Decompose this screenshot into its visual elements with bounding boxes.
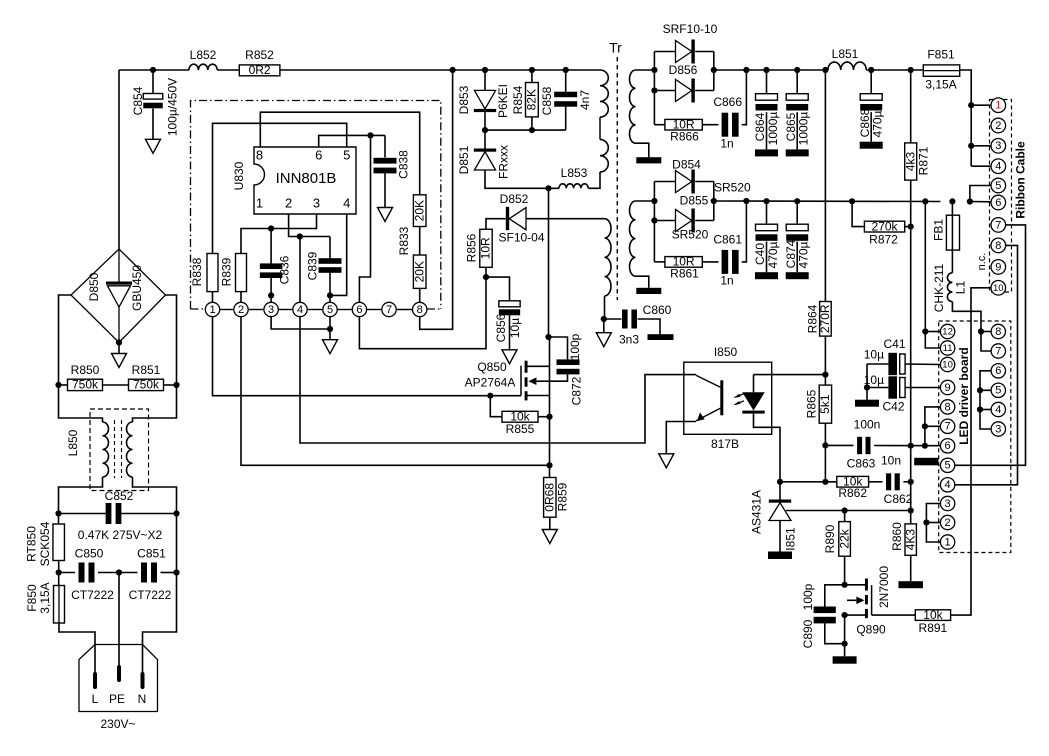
ground bar [636, 157, 661, 163]
svg-text:1n: 1n [720, 137, 733, 151]
wire left rail to bridge [118, 70, 120, 249]
wire ribbon pin6 [970, 201, 991, 203]
svg-text:AS431A: AS431A [750, 490, 764, 534]
wire pin6 to C838 [319, 135, 385, 147]
LED board pins left [940, 324, 954, 338]
svg-text:I851: I851 [784, 527, 798, 551]
svg-text:4: 4 [945, 479, 951, 491]
diode D852 SF10-04 [506, 207, 509, 230]
svg-text:20K: 20K [412, 200, 426, 221]
svg-text:3n3: 3n3 [619, 333, 639, 347]
wire pin5 to R838 [213, 123, 347, 253]
capacitor C41 10u [867, 363, 888, 365]
capacitor C890 100p [825, 585, 845, 607]
wire pin circle 1 to gate [213, 317, 491, 396]
svg-text:1000µ: 1000µ [766, 112, 780, 146]
node PE junction [116, 569, 122, 575]
svg-text:4: 4 [297, 304, 303, 316]
svg-text:R866: R866 [670, 130, 699, 144]
resistor R861 10R [654, 261, 665, 263]
node [327, 326, 333, 332]
node [173, 382, 179, 388]
wire left mains rail to plug [59, 623, 95, 673]
node [908, 224, 914, 230]
svg-text:C864: C864 [753, 112, 767, 141]
svg-text:C836: C836 [278, 255, 292, 284]
ground bar [768, 552, 792, 560]
svg-text:U830: U830 [232, 161, 246, 190]
svg-text:C851: C851 [137, 547, 166, 561]
resistor R864 270R [824, 70, 826, 302]
op-amp I850 817B optocoupler [684, 362, 772, 434]
ground bar [860, 142, 883, 149]
node [908, 479, 914, 485]
ground bar [755, 149, 778, 156]
transformer primary winding [600, 70, 608, 117]
ground bar [833, 656, 857, 663]
svg-text:0R68: 0R68 [542, 483, 556, 512]
svg-text:750k: 750k [133, 378, 160, 392]
node [545, 334, 551, 340]
svg-text:D854: D854 [672, 158, 701, 172]
svg-text:C860: C860 [643, 303, 672, 317]
resistor R854 82K [531, 70, 533, 83]
svg-text:C850: C850 [75, 547, 104, 561]
node [529, 67, 535, 73]
capacitor C850 [59, 572, 75, 574]
resistor R890 22k [844, 511, 846, 522]
resistor R862 10k [780, 481, 837, 483]
svg-text:CT7222: CT7222 [71, 588, 114, 602]
node [173, 569, 179, 575]
wire pins 3+5 to ground [271, 317, 330, 329]
node [651, 198, 657, 204]
svg-text:5: 5 [343, 147, 350, 162]
node [297, 233, 303, 239]
svg-text:5: 5 [945, 460, 951, 472]
wire emitter to ground [666, 422, 696, 454]
svg-text:817B: 817B [711, 437, 739, 451]
svg-text:6: 6 [945, 440, 951, 452]
svg-text:Q850: Q850 [477, 360, 507, 374]
svg-text:C852: C852 [105, 489, 134, 503]
svg-text:CT7222: CT7222 [129, 588, 172, 602]
svg-text:9: 9 [945, 382, 951, 394]
svg-text:LED driver board: LED driver board [957, 347, 971, 444]
svg-text:SR520: SR520 [714, 181, 751, 195]
svg-text:FRxxx: FRxxx [497, 145, 511, 179]
svg-text:R839: R839 [220, 257, 234, 286]
wire right mains rail [176, 514, 178, 573]
ground aux [603, 319, 605, 333]
svg-text:6: 6 [995, 365, 1001, 377]
wire to LED board right pins 8-7 [981, 331, 991, 333]
svg-text:C890: C890 [801, 619, 815, 648]
ground bar [898, 581, 923, 588]
svg-text:2: 2 [945, 517, 951, 529]
svg-text:C866: C866 [713, 95, 742, 109]
Ribbon Cable connector [990, 100, 1012, 293]
svg-text:L851: L851 [832, 47, 859, 61]
svg-text:270k: 270k [872, 219, 899, 233]
svg-text:100n: 100n [854, 418, 881, 432]
wire ribbon pin7 to LED pin5 [955, 225, 1026, 465]
bridge rectifier D850 [71, 249, 166, 343]
svg-text:9: 9 [995, 261, 1001, 273]
capacitor C838 [384, 135, 386, 157]
svg-text:SCK054: SCK054 [38, 521, 52, 566]
resistor R838 [207, 254, 218, 292]
svg-text:10µ: 10µ [864, 348, 884, 362]
svg-text:5k1: 5k1 [818, 394, 832, 414]
node HV+ junction [150, 67, 156, 73]
svg-text:SF10-04: SF10-04 [498, 231, 544, 245]
wire TL431 ref [786, 510, 911, 512]
capacitor C860 3n3 [604, 318, 622, 320]
LED inside opto [753, 375, 755, 393]
resistor R850 [59, 384, 68, 386]
node top rail [450, 67, 456, 73]
capacitor C839 [329, 237, 331, 259]
svg-text:R872: R872 [869, 233, 898, 247]
wire rail2 to LED pins 12/11 [925, 201, 940, 348]
svg-text:5: 5 [995, 385, 1001, 397]
svg-text:3: 3 [995, 140, 1001, 152]
svg-text:R865: R865 [805, 389, 819, 418]
svg-text:C861: C861 [713, 233, 742, 247]
node [822, 372, 828, 378]
controller sub-circuit dash-dot boundary [191, 101, 441, 310]
svg-text:C839: C839 [306, 251, 320, 280]
svg-text:22k: 22k [837, 528, 851, 548]
resistor R891 10k [872, 614, 916, 616]
svg-text:4: 4 [995, 404, 1001, 416]
pin PE [117, 667, 121, 680]
node [842, 507, 848, 513]
svg-text:4k3: 4k3 [903, 152, 917, 172]
capacitor C865 1000u [796, 70, 798, 94]
svg-text:C856: C856 [494, 313, 508, 342]
node [743, 67, 749, 73]
resistor R860 4K3 [905, 524, 916, 555]
ground bar pin5 [914, 458, 938, 466]
capacitor C861 1n [702, 261, 718, 263]
svg-text:1000µ: 1000µ [797, 112, 811, 146]
svg-text:R862: R862 [838, 486, 867, 500]
svg-text:3,15A: 3,15A [38, 582, 52, 613]
node gate junction [487, 393, 493, 399]
ground [146, 139, 161, 153]
svg-text:D855: D855 [680, 194, 709, 208]
opto arrows [735, 394, 744, 405]
ground [502, 350, 517, 364]
wire pin6 node to pin circle 6 [359, 135, 370, 302]
capacitor C852 [55, 510, 61, 516]
resistor R865 5k1 [819, 385, 831, 423]
svg-text:L853: L853 [561, 166, 588, 180]
svg-text:12: 12 [942, 327, 953, 338]
node VCC [483, 274, 489, 280]
wire pin circle 6 to VCC node [359, 277, 486, 349]
node drain [545, 185, 551, 191]
svg-text:100µ/450V: 100µ/450V [166, 78, 180, 136]
svg-text:D851: D851 [457, 145, 471, 174]
ground bar [786, 149, 809, 156]
transistor Q890 2N7000 [845, 584, 867, 586]
svg-text:1: 1 [209, 304, 215, 316]
wire R891 to pin10 net [951, 288, 992, 615]
inductor L852 [189, 64, 217, 70]
node [327, 292, 333, 298]
node [978, 328, 984, 334]
wire bridge AC right [166, 295, 177, 385]
svg-text:R864: R864 [806, 304, 820, 333]
svg-text:F851: F851 [927, 48, 955, 62]
ground bar [648, 334, 674, 340]
fuse F851 3,15A [923, 65, 959, 76]
node source sense [546, 462, 552, 468]
wire to pin circle 8 [419, 288, 421, 302]
svg-text:R838: R838 [190, 257, 204, 286]
ground [323, 340, 338, 354]
ferrite bead FB1 [951, 201, 953, 215]
capacitor C854 [152, 70, 154, 94]
resistor R839 [236, 254, 247, 292]
capacitor C42 10u [867, 387, 888, 389]
svg-text:D852: D852 [500, 192, 529, 206]
svg-text:11: 11 [943, 343, 953, 354]
svg-text:C872: C872 [570, 376, 584, 405]
mains plug 230V [79, 645, 158, 712]
svg-text:100p: 100p [568, 333, 582, 360]
capacitor C836 [270, 229, 272, 264]
thermistor RT850 [58, 514, 60, 525]
svg-text:7: 7 [995, 219, 1001, 231]
svg-text:D856: D856 [669, 63, 698, 77]
pin L [93, 674, 97, 687]
svg-text:4n7: 4n7 [578, 90, 592, 110]
svg-text:2: 2 [995, 120, 1001, 132]
wire bridge AC left [59, 295, 72, 385]
svg-text:L852: L852 [190, 48, 217, 62]
node [908, 443, 914, 449]
svg-text:3: 3 [268, 304, 274, 316]
svg-text:L1: L1 [954, 281, 968, 295]
svg-text:470µ: 470µ [797, 241, 811, 268]
svg-text:10: 10 [942, 360, 953, 371]
transformer secondary winding 2 [630, 201, 636, 276]
svg-text:230V~: 230V~ [100, 717, 135, 731]
resistor R872 270k [852, 201, 864, 226]
resistor R871 4k3 [910, 70, 912, 143]
node [842, 612, 848, 618]
svg-text:R856: R856 [465, 233, 479, 262]
svg-text:10n: 10n [881, 454, 901, 468]
svg-text:C40: C40 [753, 243, 767, 265]
svg-text:C42: C42 [882, 400, 904, 414]
svg-text:CHK-211: CHK-211 [932, 263, 946, 312]
transformer core [616, 57, 618, 300]
wire top rail to transformer [280, 69, 600, 71]
svg-text:270R: 270R [818, 304, 832, 333]
svg-text:8: 8 [995, 326, 1001, 338]
svg-text:470µ: 470µ [871, 110, 885, 137]
svg-text:P6KEI: P6KEI [496, 84, 510, 118]
node [546, 414, 552, 420]
inductor L853 [559, 184, 588, 189]
svg-text:4K3: 4K3 [903, 529, 917, 551]
resistor R852 [239, 65, 280, 76]
wire ribbon pin8 to LED pin4 [955, 245, 1018, 484]
wire pin circle 2 to source sense [241, 317, 550, 466]
svg-text:SR520: SR520 [672, 228, 709, 242]
svg-text:4: 4 [343, 195, 350, 210]
wire pin circle 4 feedback line [300, 317, 696, 443]
svg-text:1: 1 [256, 195, 263, 210]
capacitor C40 470u [766, 201, 768, 224]
wire rail2 [714, 200, 941, 203]
capacitor C856 10u [486, 277, 510, 301]
op-amp U830 INN801B controller IC [254, 147, 356, 214]
svg-text:6: 6 [356, 304, 362, 316]
node [822, 442, 828, 448]
wire LED pins 3-2-1 [926, 504, 940, 543]
node [55, 382, 61, 388]
resistor R866 10R [654, 124, 665, 126]
wire pin2 row [289, 214, 300, 302]
wire [103, 384, 129, 386]
svg-text:R890: R890 [823, 524, 837, 553]
svg-text:C41: C41 [883, 337, 905, 351]
svg-text:3,15A: 3,15A [925, 78, 956, 92]
wire snubber row [485, 129, 566, 131]
capacitor C874 470u [796, 201, 798, 224]
svg-text:C858: C858 [540, 86, 554, 115]
svg-text:C854: C854 [131, 86, 145, 115]
svg-text:0.47K 275V~X2: 0.47K 275V~X2 [78, 528, 163, 542]
svg-text:L850: L850 [66, 429, 80, 456]
fuse F850 [58, 573, 60, 586]
transistor Q850 AP2764A [520, 366, 522, 396]
svg-text:C863: C863 [847, 457, 876, 471]
svg-text:1: 1 [945, 536, 951, 548]
node [842, 582, 848, 588]
ground bar [755, 272, 778, 279]
wire ribbon pins 1,3,4 supply [968, 102, 974, 108]
svg-text:D853: D853 [457, 85, 471, 114]
capacitor C862 10n [869, 481, 883, 483]
svg-text:2: 2 [285, 195, 292, 210]
common-mode choke L850 [90, 409, 149, 491]
wire LED right pins 6-3 [980, 371, 991, 429]
node [777, 479, 783, 485]
capacitor C851 [119, 572, 138, 574]
svg-text:8: 8 [945, 401, 951, 413]
svg-text:R850: R850 [71, 363, 100, 377]
diode D853 P6KEI TVS [484, 70, 486, 90]
node [864, 384, 870, 390]
svg-text:R855: R855 [506, 422, 535, 436]
node aux return [601, 316, 607, 322]
node [367, 132, 373, 138]
capacitor C863 100n [825, 444, 853, 446]
svg-text:R859: R859 [556, 482, 570, 511]
capacitor C858 4n7 [565, 70, 567, 92]
node [268, 225, 274, 231]
svg-text:Tr: Tr [609, 40, 622, 56]
svg-text:D850: D850 [87, 272, 101, 301]
svg-text:7: 7 [945, 421, 951, 433]
svg-text:1: 1 [995, 100, 1001, 112]
wire PE to plug [118, 573, 120, 667]
wire ribbon pin5 [970, 186, 991, 202]
svg-text:2: 2 [238, 304, 244, 316]
resistor R856 10R [480, 229, 492, 267]
ground bar [855, 400, 879, 407]
ground [118, 343, 120, 354]
svg-text:3: 3 [945, 498, 951, 510]
diode D851 FRxxx [484, 130, 486, 148]
svg-text:8: 8 [417, 304, 423, 316]
svg-text:10µ: 10µ [508, 318, 522, 338]
phototransistor inside opto [720, 380, 723, 415]
svg-text:5: 5 [995, 180, 1001, 192]
svg-text:R852: R852 [245, 48, 274, 62]
svg-text:PE: PE [109, 692, 125, 706]
wire drain sense to pin circle 8 [420, 70, 453, 329]
svg-text:GBU450: GBU450 [130, 265, 144, 311]
transformer aux winding [587, 218, 605, 220]
resistor R859 0R68 [549, 465, 551, 477]
svg-text:8: 8 [995, 240, 1001, 252]
svg-text:750k: 750k [72, 378, 99, 392]
node [563, 67, 569, 73]
wire to LED pins 7-8 [925, 407, 941, 446]
svg-text:R851: R851 [132, 363, 161, 377]
wire [217, 69, 239, 71]
node [908, 67, 914, 73]
svg-text:n.c.: n.c. [976, 253, 988, 271]
svg-text:RT850: RT850 [25, 526, 39, 562]
svg-text:3: 3 [313, 195, 320, 210]
capacitor C866 1n [702, 124, 718, 126]
svg-text:FB1: FB1 [932, 219, 946, 241]
capacitor C864 1000u [766, 70, 768, 94]
svg-text:5: 5 [327, 304, 333, 316]
svg-text:R891: R891 [919, 621, 948, 635]
capacitor C868 470u [870, 70, 872, 94]
resistor R833 upper 20K [413, 195, 426, 227]
svg-text:3: 3 [995, 423, 1001, 435]
svg-text:C838: C838 [397, 150, 411, 179]
svg-text:Ribbon Cable: Ribbon Cable [1014, 141, 1028, 219]
svg-text:82K: 82K [525, 89, 539, 110]
svg-text:4: 4 [995, 161, 1001, 173]
svg-text:C862: C862 [884, 492, 913, 506]
resistor R855 10k [490, 396, 502, 417]
svg-text:L: L [92, 692, 99, 706]
svg-text:INN801B: INN801B [276, 170, 337, 187]
wire top HV rail [119, 69, 189, 71]
node [651, 67, 657, 73]
svg-text:7: 7 [386, 304, 392, 316]
svg-text:20K: 20K [412, 261, 426, 282]
LED driver board connector [939, 321, 1011, 553]
node [868, 67, 874, 73]
wire drain vertical [548, 188, 550, 337]
ground [378, 208, 393, 222]
svg-text:10: 10 [993, 283, 1004, 294]
